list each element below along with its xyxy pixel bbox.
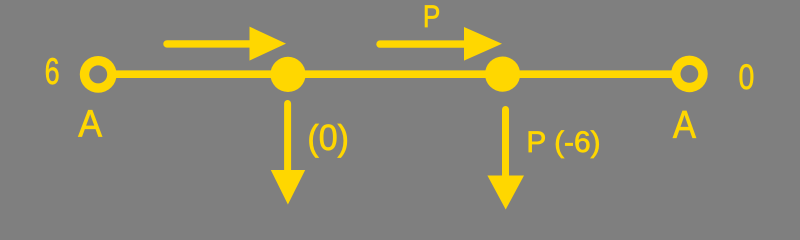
node A left: open circle support <box>80 56 117 93</box>
svg-text:P: P <box>423 0 440 35</box>
force arrow P (horizontal, toward node 2) <box>380 27 502 61</box>
force arrow 1 (horizontal, toward node 1) <box>167 27 286 61</box>
svg-text:A: A <box>673 104 697 147</box>
svg-text:0: 0 <box>739 57 755 97</box>
load arrow down at node 1 <box>271 104 305 205</box>
svg-text:P (-6): P (-6) <box>526 126 600 159</box>
wire: main bar from node A(left) to node A(right) <box>98 70 689 78</box>
node 1: filled joint (left interior) <box>270 57 305 92</box>
svg-text:6: 6 <box>45 50 60 92</box>
svg-text:A: A <box>78 103 102 145</box>
node 2: filled joint (right interior) <box>485 57 520 92</box>
node A right: open circle support <box>671 56 708 93</box>
svg-text:(0): (0) <box>307 118 349 158</box>
load arrow down at node 2 <box>487 110 524 210</box>
